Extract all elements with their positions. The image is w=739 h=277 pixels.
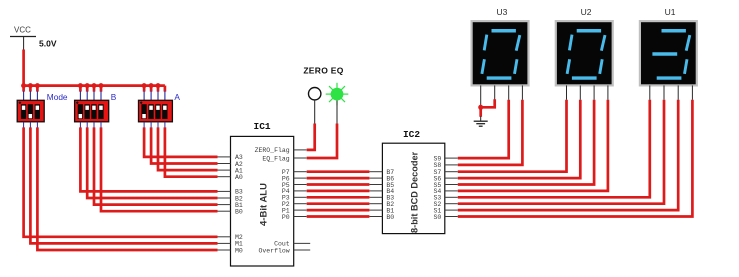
svg-text:ZERO_Flag: ZERO_Flag bbox=[255, 147, 290, 154]
junction bus-A pin3 bbox=[156, 83, 161, 88]
wire bus to B top pin 4 bbox=[100, 86, 103, 101]
pin IC1.M0 bbox=[218, 247, 243, 254]
wire IC2.S8 to display pin bbox=[458, 100, 523, 165]
wire IC1.P3 to IC2.B3 bbox=[307, 196, 370, 199]
wire IC1.EQ_Flag to EQ LED bbox=[307, 124, 337, 159]
pin IC2.S2 bbox=[433, 201, 457, 208]
wire IC2.S1 to display pin bbox=[458, 100, 678, 210]
svg-text:4-Bit ALU: 4-Bit ALU bbox=[258, 183, 269, 226]
junction U3 ground node bbox=[478, 105, 483, 110]
junction bus-A pin2 bbox=[149, 83, 154, 88]
pin IC2.S6 bbox=[433, 175, 457, 182]
wire A pin2 to IC1 A2 bbox=[151, 122, 217, 164]
label IC1 bbox=[254, 121, 271, 132]
svg-text:A: A bbox=[174, 92, 180, 102]
pin U2.4 bbox=[607, 85, 609, 99]
svg-text:P0: P0 bbox=[282, 214, 290, 221]
pin IC1.P0 bbox=[282, 214, 307, 221]
wire bus to Mode top pin 1 bbox=[22, 86, 25, 101]
pin IC1.B1 bbox=[218, 202, 243, 209]
svg-text:U3: U3 bbox=[496, 7, 507, 17]
pin IC1.M2 bbox=[218, 234, 243, 241]
wire bus to Mode top pin 2 bbox=[29, 86, 32, 101]
pin IC2.B4 bbox=[369, 188, 394, 195]
ground bbox=[474, 116, 488, 126]
wire A pin4 to IC1 A0 bbox=[165, 122, 218, 177]
svg-text:U1: U1 bbox=[665, 7, 676, 17]
junction bus-B pin3 bbox=[92, 83, 97, 88]
svg-text:VCC: VCC bbox=[14, 26, 31, 35]
pin IC1.P2 bbox=[282, 201, 307, 208]
wire B pin4 to IC1 B0 bbox=[101, 122, 218, 211]
op IC2 8-bit BCD Decoder body bbox=[382, 143, 444, 233]
pin U2.2 bbox=[579, 85, 581, 99]
pin IC1.P3 bbox=[282, 195, 307, 202]
junction bus-Mode pin1 bbox=[21, 83, 26, 88]
wire IC1.ZERO_Flag to ZERO probe bbox=[307, 124, 315, 150]
wire bus to B top pin 3 bbox=[93, 86, 96, 101]
pin IC1.A3 bbox=[218, 154, 243, 161]
wire IC1.P4 to IC2.B4 bbox=[307, 190, 370, 193]
pin IC1.P4 bbox=[282, 188, 307, 195]
pin U1.2 bbox=[663, 85, 665, 99]
pin IC2.S1 bbox=[433, 207, 457, 214]
display U2 seven-segment bbox=[556, 21, 613, 85]
pin IC2.B5 bbox=[369, 182, 394, 189]
op IC1 4-Bit ALU body bbox=[231, 136, 294, 266]
pin IC1.EQ_Flag bbox=[262, 155, 306, 162]
pin IC1.Overflow bbox=[258, 247, 310, 254]
pin IC2.S5 bbox=[433, 182, 457, 189]
pin IC1.P7 bbox=[282, 169, 307, 176]
pin IC2.B2 bbox=[369, 201, 394, 208]
pin IC2.B6 bbox=[369, 175, 394, 182]
pin IC2.S9 bbox=[433, 155, 457, 162]
wire IC2.S4 to display pin bbox=[458, 100, 608, 191]
junction bus-B pin1 bbox=[78, 83, 83, 88]
pin U2.3 bbox=[593, 85, 595, 99]
svg-text:M0: M0 bbox=[235, 247, 243, 254]
wire IC2.S2 to display pin bbox=[458, 100, 664, 204]
label U3 bbox=[496, 7, 507, 17]
dip switch S_A bbox=[139, 100, 173, 122]
wire A pin1 to IC1 A3 bbox=[144, 122, 217, 157]
pin IC1.M1 bbox=[218, 241, 243, 248]
wire IC2.S9 to display pin bbox=[458, 100, 509, 158]
svg-text:Overflow: Overflow bbox=[258, 247, 289, 254]
svg-text:B: B bbox=[111, 92, 117, 102]
pin U3.1 bbox=[480, 85, 482, 107]
svg-text:IC2: IC2 bbox=[403, 129, 420, 140]
junction bus-Mode pin3 bbox=[35, 83, 40, 88]
svg-text:ZERO EQ: ZERO EQ bbox=[303, 66, 343, 76]
label U2 bbox=[581, 7, 592, 17]
junction bus-A pin1 bbox=[142, 83, 147, 88]
pin U1.1 bbox=[649, 85, 651, 99]
wire IC1.P1 to IC2.B1 bbox=[307, 209, 370, 212]
pin IC1.B2 bbox=[218, 195, 243, 202]
svg-text:B0: B0 bbox=[386, 214, 394, 221]
wire bus to A top pin 2 bbox=[150, 86, 153, 101]
pin IC2.S7 bbox=[433, 169, 457, 176]
label B for switch S_B bbox=[111, 92, 117, 102]
label ZERO EQ bbox=[303, 66, 343, 76]
pin IC1.ZERO_Flag bbox=[255, 147, 307, 154]
pin IC2.B3 bbox=[369, 195, 394, 202]
wire IC2.S6 to display pin bbox=[458, 100, 581, 178]
wire Mode pin3 to IC1 M0 bbox=[37, 122, 217, 250]
pin IC1.P5 bbox=[282, 182, 307, 189]
pin IC2.S0 bbox=[433, 214, 457, 221]
wire Mode pin1 to IC1 M2 bbox=[24, 122, 218, 237]
label IC2 bbox=[403, 129, 420, 140]
wire U3 pin2 to ground bbox=[481, 99, 495, 107]
svg-text:B0: B0 bbox=[235, 209, 243, 216]
wire ground node down bbox=[479, 107, 482, 117]
label 4-Bit ALU vertical bbox=[258, 183, 269, 226]
wire B pin3 to IC1 B1 bbox=[94, 122, 218, 205]
pin IC1.B3 bbox=[218, 189, 243, 196]
svg-text:A0: A0 bbox=[235, 174, 243, 181]
display U1 seven-segment bbox=[640, 21, 697, 85]
svg-text:U2: U2 bbox=[581, 7, 592, 17]
pin IC2.S4 bbox=[433, 188, 457, 195]
wire VCC to power bus bbox=[22, 50, 25, 86]
label U1 bbox=[665, 7, 676, 17]
svg-text:S0: S0 bbox=[433, 214, 441, 221]
indicator X1 ZERO probe (off) bbox=[309, 88, 321, 125]
svg-text:Mode: Mode bbox=[47, 92, 68, 102]
wire IC1.P2 to IC2.B2 bbox=[307, 202, 370, 205]
dip switch S_Mode bbox=[17, 100, 44, 122]
wire B pin1 to IC1 B3 bbox=[80, 122, 217, 192]
wire power bus horizontal bbox=[23, 84, 165, 87]
indicator X2 EQ LED (on, green) bbox=[326, 83, 349, 125]
wire bus to A top pin 1 bbox=[143, 86, 146, 101]
pin IC2.B1 bbox=[369, 207, 394, 214]
svg-text:5.0V: 5.0V bbox=[39, 38, 57, 48]
wire bus to B top pin 2 bbox=[86, 86, 89, 101]
wire IC2.S0 to display pin bbox=[458, 100, 693, 217]
pin IC2.B7 bbox=[369, 169, 394, 176]
wire B pin2 to IC1 B2 bbox=[87, 122, 217, 198]
pin U1.3 bbox=[677, 85, 679, 99]
wire IC1.P6 to IC2.B6 bbox=[307, 177, 370, 180]
label Mode for switch S_Mode bbox=[47, 92, 68, 102]
junction bus-Mode pin2 bbox=[28, 83, 33, 88]
wire Mode pin2 to IC1 M1 bbox=[30, 122, 217, 244]
label A for switch S_A bbox=[174, 92, 180, 102]
pin IC1.P6 bbox=[282, 175, 307, 182]
pin IC2.B0 bbox=[369, 214, 394, 221]
wire IC2.S5 to display pin bbox=[458, 100, 594, 185]
pin U1.4 bbox=[691, 85, 693, 99]
pin IC1.B0 bbox=[218, 209, 243, 216]
pin U2.1 bbox=[566, 85, 568, 99]
dip switch S_B bbox=[75, 100, 109, 122]
wire IC2.S7 to display pin bbox=[458, 100, 567, 172]
pin IC1.A2 bbox=[218, 161, 243, 168]
display U3 seven-segment bbox=[472, 21, 529, 85]
wire bus to A top pin 4 bbox=[164, 86, 167, 101]
pin IC1.P1 bbox=[282, 207, 307, 214]
power VCC 5.0V source bbox=[10, 26, 57, 51]
pin U3.2 bbox=[494, 85, 496, 99]
pin IC1.A0 bbox=[218, 174, 243, 181]
label 8-bit BCD Decoder vertical bbox=[409, 151, 419, 233]
svg-text:8-bit BCD Decoder: 8-bit BCD Decoder bbox=[409, 151, 419, 233]
wire IC1.P7 to IC2.B7 bbox=[307, 170, 370, 173]
pin IC2.S8 bbox=[433, 162, 457, 169]
wire bus to Mode top pin 3 bbox=[36, 86, 39, 101]
wire A pin3 to IC1 A1 bbox=[158, 122, 218, 170]
svg-text:EQ_Flag: EQ_Flag bbox=[262, 155, 289, 162]
wire IC1.P5 to IC2.B5 bbox=[307, 183, 370, 186]
svg-text:IC1: IC1 bbox=[254, 121, 271, 132]
wire IC1.P0 to IC2.B0 bbox=[307, 215, 370, 218]
wire bus to B top pin 1 bbox=[79, 86, 82, 101]
pin IC2.S3 bbox=[433, 195, 457, 202]
wire IC2.S3 to display pin bbox=[458, 100, 650, 198]
junction bus-B pin2 bbox=[85, 83, 90, 88]
pin IC1.A1 bbox=[218, 167, 243, 174]
pin U3.3 bbox=[508, 85, 510, 99]
pin IC1.Cout bbox=[274, 241, 310, 248]
wire bus to A top pin 3 bbox=[157, 86, 160, 101]
junction bus-B pin4 bbox=[99, 83, 104, 88]
pin U3.4 bbox=[521, 85, 523, 99]
